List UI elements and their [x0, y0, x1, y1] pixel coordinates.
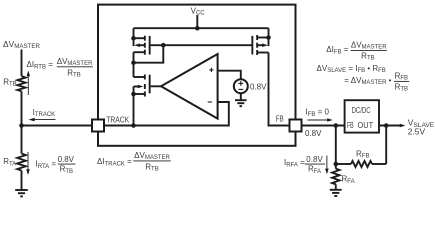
label V_SLAVE 2.5V [408, 118, 435, 137]
svg-text:OUT: OUT [358, 120, 374, 130]
current arrow I_RTA (down) [26, 152, 30, 175]
current arrow I_FB (right) [306, 108, 333, 122]
wire FB pin to DC/DC [302, 125, 345, 127]
FB node junction dot [334, 123, 339, 128]
current arrow I_TRACK (left) [29, 108, 56, 122]
wire M1 drain to M3 [133, 63, 135, 77]
M1 gate junction dot [161, 43, 166, 48]
node junction dot at track rail [19, 123, 24, 128]
svg-text:FB: FB [276, 113, 284, 123]
DC/DC converter block [345, 100, 379, 132]
label delta-I_RTB equation [27, 57, 94, 79]
resistor RTB [3, 76, 25, 91]
TRACK node junction dot [131, 123, 136, 128]
pin FB [276, 113, 302, 131]
op-amp U1 [161, 54, 218, 119]
M1 drain junction dot [131, 60, 136, 65]
label delta-I_TRACK equation (bottom center) [97, 151, 171, 173]
svg-text:TRACK: TRACK [106, 114, 129, 124]
transistor M2 (PMOS mirror output) [251, 28, 270, 55]
ground (right, under RFA) [330, 190, 342, 196]
Vcc rail wire [134, 27, 269, 29]
wire OUT down to RFB [385, 126, 387, 165]
svg-text:ΔVSLAVE = IFB • RFB: ΔVSLAVE = IFB • RFB [317, 64, 386, 74]
ground (center, under reference) [235, 100, 247, 106]
svg-text:2.5V: 2.5V [408, 126, 426, 136]
ground (left) [15, 190, 28, 196]
wire node to TRACK pin [22, 125, 93, 127]
label I_RTA equation [36, 155, 76, 175]
label I_RFA equation [284, 155, 325, 175]
svg-text:FB: FB [347, 120, 354, 130]
node delta-V_MASTER label [3, 39, 41, 50]
pin TRACK [92, 114, 129, 131]
resistor RTA [3, 154, 26, 171]
label delta-I_FB equation (top right) [326, 40, 387, 61]
RFA node junction dot [334, 162, 339, 167]
svg-text:0.8V: 0.8V [306, 155, 323, 164]
wire DC/DC OUT with arrow to Vslave [379, 124, 405, 128]
transistor M3 (NMOS follower) [131, 75, 161, 97]
wire from dVmaster to RTB [21, 50, 23, 77]
wire M3 source to TRACK node [133, 94, 135, 126]
current arrow delta-I_RTB (up) [27, 71, 31, 95]
wire RTA to ground [21, 171, 23, 191]
svg-text:0.8V: 0.8V [250, 83, 267, 92]
diode connection wire [134, 45, 164, 63]
label delta-V_SLAVE equation [317, 64, 410, 93]
resistor RFB [336, 149, 386, 167]
transistor M1 (PMOS, diode connected) [131, 28, 163, 63]
wire op-amp + input to 0.8V reference [218, 71, 241, 80]
current arrow I_RFA (down) [325, 156, 329, 175]
resistor RFA [332, 164, 355, 190]
TRACK net wire and feedback to op-amp - input [104, 102, 229, 126]
IC block outline [98, 5, 296, 146]
gate wire M1 to M2 [163, 44, 252, 46]
wire FB node down to RFA node [335, 126, 337, 165]
svg-text:0.8V: 0.8V [305, 129, 322, 138]
svg-text:0.8V: 0.8V [58, 155, 75, 164]
OUT node junction dot [384, 123, 389, 128]
M2 drain wire down to FB [269, 53, 291, 126]
svg-text:DC/DC: DC/DC [352, 105, 371, 115]
Vcc label [191, 6, 206, 30]
voltage source 0.8V reference [234, 79, 267, 93]
wire reference to ground [240, 93, 242, 100]
wire RTB node to RTA [21, 91, 23, 153]
